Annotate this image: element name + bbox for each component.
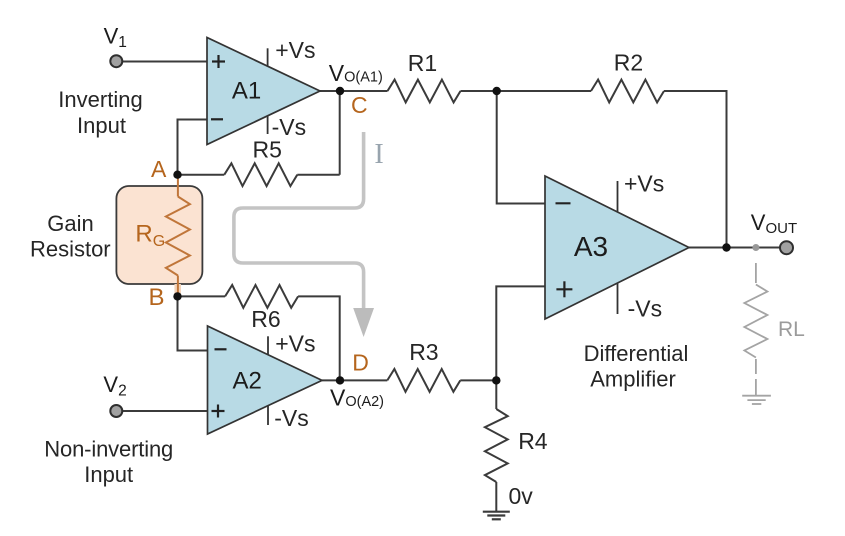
A2 + input pin	[212, 405, 225, 418]
wire R6 to node D	[298, 296, 340, 380]
svg-text:Resistor: Resistor	[30, 237, 111, 262]
junction J2	[492, 376, 500, 384]
svg-text:R6: R6	[251, 306, 280, 332]
wire A3 output to VOUT	[689, 247, 780, 249]
label Differential Amplifier	[584, 341, 689, 392]
svg-text:Input: Input	[77, 113, 126, 138]
load junction dot	[752, 244, 759, 251]
A1 + input pin	[212, 55, 225, 68]
svg-text:R4: R4	[518, 428, 548, 454]
resistor R4	[485, 409, 508, 482]
svg-text:A1: A1	[232, 77, 261, 104]
svg-text:-Vs: -Vs	[272, 114, 307, 140]
terminal VOUT	[780, 241, 793, 254]
wire V2 to A2 + input	[122, 410, 207, 412]
A3 -Vs pin	[618, 283, 663, 322]
svg-text:+Vs: +Vs	[275, 330, 315, 356]
wire node A to R5	[178, 174, 225, 176]
resistor R5	[224, 163, 297, 186]
svg-text:Gain: Gain	[47, 211, 93, 236]
wire node B to R6	[178, 295, 226, 297]
current arrow I (gray)	[234, 132, 374, 337]
wire R3 to junction J2	[460, 379, 496, 381]
A2 -Vs pin	[268, 405, 309, 431]
svg-text:I: I	[374, 139, 383, 170]
label Gain Resistor	[30, 211, 111, 262]
node D	[336, 349, 369, 384]
op-amp A2	[208, 326, 323, 434]
svg-text:Input: Input	[84, 462, 133, 487]
node A	[151, 156, 182, 182]
gain resistor RG box	[116, 186, 202, 284]
svg-text:R2: R2	[614, 50, 643, 76]
terminal V1	[104, 23, 127, 67]
A3 + input pin	[556, 281, 572, 297]
wire R4 to ground	[495, 482, 497, 511]
resistor RG	[174, 284, 181, 294]
svg-text:0v: 0v	[509, 483, 534, 509]
wire R1 to R2	[461, 90, 592, 92]
junction J1	[493, 87, 501, 95]
resistor R1	[388, 80, 461, 103]
A3 - input pin	[556, 202, 571, 204]
label Non-inverting Input	[44, 436, 173, 487]
label Inverting Input	[58, 87, 142, 138]
svg-text:-Vs: -Vs	[274, 405, 309, 431]
A2 +Vs pin	[268, 330, 315, 356]
A1 +Vs pin	[268, 37, 316, 67]
resistor R2	[591, 80, 664, 103]
svg-text:+Vs: +Vs	[275, 37, 315, 63]
terminal V2	[103, 372, 126, 417]
svg-text:Differential: Differential	[584, 341, 689, 366]
A3 +Vs pin	[618, 170, 665, 212]
resistor R3	[387, 369, 460, 392]
op-amp A3	[545, 176, 689, 319]
wire junction J2 to A3 + input	[496, 286, 545, 380]
svg-text:R1: R1	[408, 50, 437, 76]
wire A2 output to R3	[322, 379, 387, 381]
svg-text:Inverting: Inverting	[58, 87, 142, 112]
svg-text:RL: RL	[778, 318, 805, 341]
A1 -Vs pin	[268, 114, 307, 140]
svg-text:A3: A3	[574, 231, 608, 262]
svg-text:R5: R5	[252, 137, 281, 163]
output node	[722, 243, 730, 251]
node C	[336, 87, 368, 118]
wire R2 to output node	[664, 91, 727, 248]
load resistor RL	[744, 263, 767, 396]
svg-text:C: C	[351, 92, 368, 118]
svg-text:A: A	[151, 156, 167, 182]
wire A1 output to R1	[320, 90, 388, 92]
wire J2 to R4	[495, 380, 497, 409]
svg-text:D: D	[352, 349, 369, 375]
wire junction J1 to A3 - input	[497, 91, 545, 204]
wire A1 - input to node A	[178, 120, 208, 175]
A2 - input pin	[215, 348, 227, 350]
svg-text:A2: A2	[233, 367, 262, 394]
svg-text:Amplifier: Amplifier	[590, 367, 676, 392]
resistor R6	[225, 285, 298, 308]
svg-text:Non-inverting: Non-inverting	[44, 436, 173, 461]
svg-text:-Vs: -Vs	[628, 296, 663, 322]
node B	[149, 284, 182, 311]
op-amp A1	[207, 38, 320, 145]
svg-text:R3: R3	[409, 339, 438, 365]
svg-text:B: B	[149, 284, 165, 311]
ground RL (gray)	[742, 396, 771, 404]
ground 0v	[483, 512, 510, 520]
wire node B to A2 - input	[178, 296, 208, 350]
A1 - input pin	[211, 118, 223, 120]
wire V1 to A1 + input	[122, 61, 207, 63]
svg-text:+Vs: +Vs	[624, 170, 664, 196]
wire node C feedback drop	[339, 91, 341, 175]
wire R5 to feedback drop	[297, 174, 339, 176]
